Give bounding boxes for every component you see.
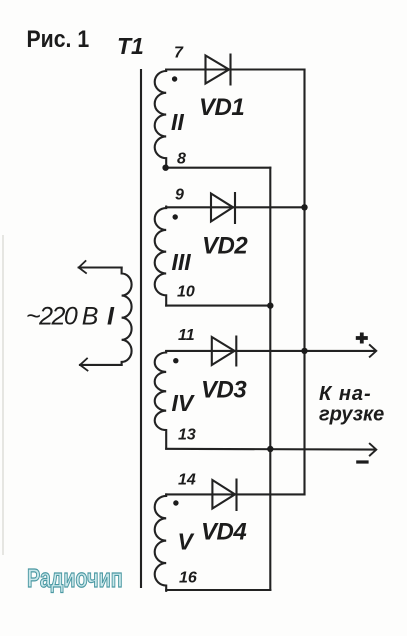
junction dot pin 10 on - bus xyxy=(267,302,273,308)
transformer core T1 xyxy=(140,70,142,587)
wire pin 9 through VD2 xyxy=(166,206,304,208)
junction dot + output on + bus xyxy=(301,348,307,354)
primary winding I xyxy=(122,268,132,365)
svg-text:Радиочип: Радиочип xyxy=(27,563,123,592)
svg-text:VD4: VD4 xyxy=(201,519,246,546)
svg-text:13: 13 xyxy=(178,427,196,444)
wire + bus vertical xyxy=(303,70,305,495)
- output label xyxy=(356,460,368,463)
svg-text:VD2: VD2 xyxy=(202,233,248,260)
svg-text:~220 В: ~220 В xyxy=(26,303,98,331)
wire pin 10 xyxy=(166,305,270,307)
svg-text:7: 7 xyxy=(174,45,184,62)
diode VD3 xyxy=(212,337,237,366)
wire pin 13 to - output xyxy=(166,448,375,451)
junction dot VD2 output on + bus xyxy=(301,204,307,210)
svg-text:VD1: VD1 xyxy=(199,94,244,121)
svg-text:IV: IV xyxy=(172,390,195,416)
svg-text:III: III xyxy=(172,249,192,275)
arrow primary bottom lead xyxy=(80,359,88,371)
arrow primary top lead xyxy=(79,261,86,273)
wire - bus vertical xyxy=(269,168,271,590)
wire primary top lead xyxy=(79,266,122,268)
phase dot winding IV xyxy=(173,358,178,363)
+ output label xyxy=(356,333,368,344)
svg-text:10: 10 xyxy=(177,284,195,301)
svg-text:16: 16 xyxy=(179,570,197,587)
diode VD4 xyxy=(212,480,236,511)
diode VD1 xyxy=(206,55,231,85)
phase dot winding V xyxy=(173,500,178,505)
svg-text:К на-: К на- xyxy=(319,383,372,405)
svg-text:Рис. 1: Рис. 1 xyxy=(27,25,90,53)
scan edge artifact line xyxy=(2,235,4,555)
svg-text:8: 8 xyxy=(177,151,186,168)
junction dot pin 8 corner xyxy=(162,165,168,171)
wire primary bottom lead xyxy=(80,364,122,366)
junction dot pin 13 on - bus xyxy=(267,446,273,452)
arrow + output xyxy=(370,345,377,357)
svg-text:II: II xyxy=(171,109,184,135)
svg-text:9: 9 xyxy=(175,187,184,204)
secondary winding II xyxy=(155,70,167,168)
wire pin 14 through VD4 xyxy=(166,493,304,495)
svg-text:грузке: грузке xyxy=(319,404,384,426)
wire pin 16 xyxy=(166,589,270,591)
arrow - output xyxy=(370,444,377,456)
phase dot winding II xyxy=(172,76,177,81)
secondary winding IV xyxy=(155,351,167,449)
wire pin 7 to VD1 and + bus xyxy=(166,68,304,70)
diode VD2 xyxy=(211,193,235,223)
svg-text:14: 14 xyxy=(178,472,196,489)
wire pin 8 xyxy=(166,167,270,169)
phase dot winding III xyxy=(173,214,178,219)
svg-text:I: I xyxy=(107,303,115,331)
wire pin 11 through VD3 to + output xyxy=(166,350,375,352)
svg-text:11: 11 xyxy=(178,327,195,344)
svg-text:T1: T1 xyxy=(117,33,144,59)
secondary winding V xyxy=(155,494,167,590)
secondary winding III xyxy=(155,207,167,306)
svg-text:V: V xyxy=(178,529,195,555)
svg-text:VD3: VD3 xyxy=(201,377,247,404)
